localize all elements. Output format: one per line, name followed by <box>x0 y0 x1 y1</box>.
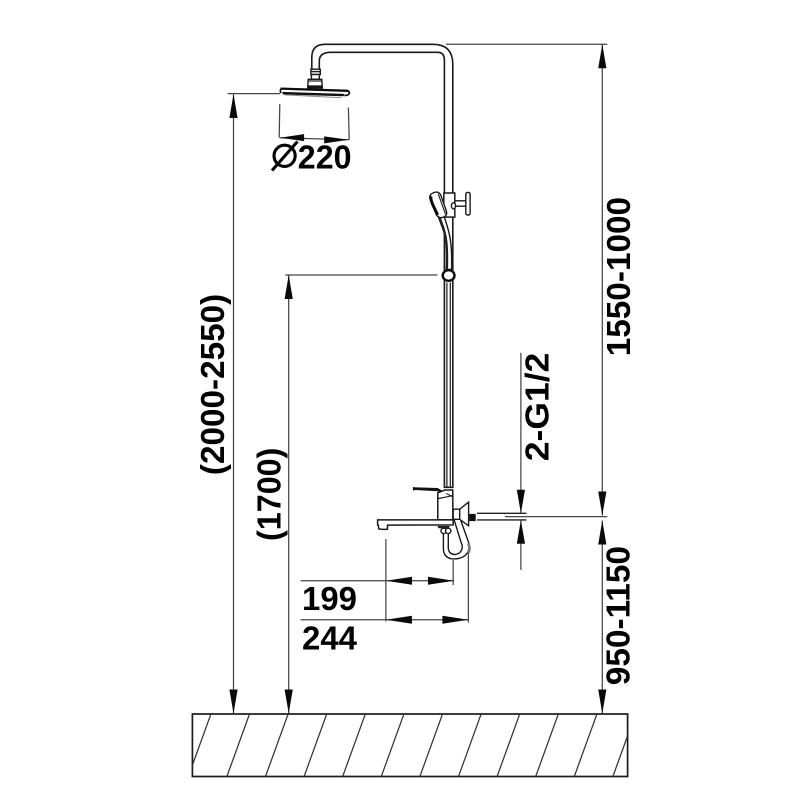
arrow down 2-G1/2 <box>517 490 525 514</box>
hand shower head <box>428 191 448 220</box>
lever pivot line <box>434 489 445 493</box>
svg-text:950-1150: 950-1150 <box>601 546 638 685</box>
dimension line 950-1150 vertical <box>601 521 603 714</box>
diverter step block <box>453 509 460 519</box>
diameter symbol <box>272 142 298 171</box>
arrow up (2000-2550) <box>229 94 237 118</box>
shower arm neck <box>311 75 319 80</box>
shower arm nut <box>311 69 320 79</box>
under-shelf nut <box>437 526 449 528</box>
arrow right 199 <box>428 577 454 585</box>
dimension leader top-right <box>446 43 607 45</box>
extension line 199/244 left (x=385.9) <box>385 539 387 622</box>
shower head connector <box>308 79 323 88</box>
handle dark edge <box>439 217 447 270</box>
arrow down (2000-2550) <box>229 690 237 714</box>
dimension line (1700) vertical <box>288 276 290 714</box>
arrow up 1550-1000 <box>598 44 606 68</box>
diverter bell <box>460 502 469 526</box>
supply centerline to right dim <box>505 516 607 518</box>
shower head dark rim <box>282 92 345 96</box>
extension line 244 right (x=468.4) <box>467 549 469 623</box>
T-knob bar <box>466 192 470 215</box>
body waist lines <box>438 495 453 498</box>
hose loop shadow <box>468 544 469 554</box>
arrow up 2-G1/2 <box>517 520 525 544</box>
dimension line 2-G1/2 vertical lower <box>520 521 522 571</box>
arrow down 950-1150 <box>598 690 606 714</box>
arrow left 244 <box>386 616 412 624</box>
extension line 199 right (x=453.2) <box>452 560 454 585</box>
lever tip cap <box>413 487 415 490</box>
diverter nut black <box>469 514 476 521</box>
dimension line 199 <box>301 580 454 582</box>
floor slab <box>188 714 636 778</box>
slider bracket <box>444 193 455 217</box>
shower column pipe with top bend <box>312 44 453 487</box>
arrow left 199 <box>386 577 412 585</box>
wall supply G1/2 double lines <box>477 512 527 514</box>
dimension line 2-G1/2 vertical upper <box>520 353 522 513</box>
arrow up (1700) <box>285 275 293 299</box>
mixer lever handle <box>413 487 445 494</box>
arrow left dia220 <box>280 134 305 141</box>
mixer body <box>438 490 453 520</box>
knob stem collar <box>451 203 455 209</box>
svg-text:(1700): (1700) <box>252 448 289 541</box>
svg-text:1550-1000: 1550-1000 <box>601 197 638 356</box>
dimension leader top-left (shower head level) <box>228 93 281 95</box>
arrow down (1700) <box>285 690 293 714</box>
dimension leader (1700) horizontal <box>285 274 437 276</box>
outlet hose loop <box>448 520 462 555</box>
arrow up 950-1150 <box>598 521 606 545</box>
hose along pipe <box>446 283 448 488</box>
svg-text:2-G1/2: 2-G1/2 <box>520 353 557 462</box>
arrow down 1550-1000 <box>598 492 606 516</box>
svg-text:(2000-2550): (2000-2550) <box>195 294 232 475</box>
dimension line (2000-2550) vertical <box>233 95 235 714</box>
svg-text:220: 220 <box>298 139 352 176</box>
dimension line dia220 <box>280 138 349 140</box>
shower head dish <box>280 88 350 98</box>
arrow right dia220 <box>324 136 349 143</box>
hose connector ring <box>443 270 455 281</box>
dimension line 244 <box>301 619 469 621</box>
dimension line 1550-1000 vertical <box>601 45 603 516</box>
extension line dia220 right <box>347 108 350 141</box>
hose coupling circles <box>441 528 446 533</box>
hand shower handle <box>438 212 452 270</box>
shelf with spout <box>378 520 454 529</box>
svg-text:199: 199 <box>302 581 357 618</box>
svg-text:244: 244 <box>302 621 357 658</box>
arrow right 244 <box>442 616 468 624</box>
diverter T-knob stem <box>455 200 466 202</box>
extension line dia220 left <box>278 104 281 138</box>
